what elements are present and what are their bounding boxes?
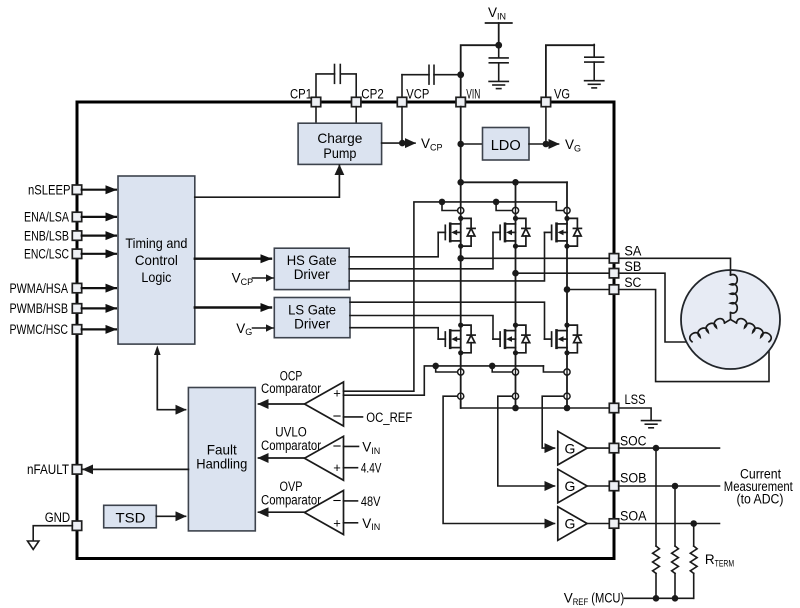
op-amp UVLO comparator [305, 436, 344, 480]
node SOB Rterm tap [672, 483, 679, 490]
resistor R3 (SOA termination) R_TERM [690, 524, 697, 599]
amplifier G (SOC) [558, 431, 587, 465]
wire CSA sense B to G amp [498, 396, 555, 486]
wire phase column A [460, 182, 462, 408]
svg-text:PWMC/HSC: PWMC/HSC [10, 322, 69, 337]
gate ring Q3 [564, 207, 570, 213]
block HS Gate Driver [274, 248, 349, 289]
pin ENB/LSB [72, 231, 81, 240]
pin PWMB/HSB [72, 304, 81, 313]
transistor Q1 high-side A [438, 216, 475, 249]
node HS sense tap B [493, 199, 500, 206]
svg-text:VIN: VIN [362, 516, 380, 532]
svg-text:SA: SA [624, 244, 641, 259]
wire LS sense drop A [436, 366, 458, 372]
source ring Q5 upper [512, 369, 518, 375]
wire ENC to logic [82, 253, 116, 255]
wire CP2 to charge pump [355, 107, 357, 124]
wire ENA to logic [82, 216, 116, 218]
svg-text:Control: Control [135, 252, 178, 268]
wire LS sense drop B [492, 366, 512, 372]
wire CP1 to charge pump [315, 107, 317, 124]
wire PWMB to logic [82, 307, 116, 309]
svg-text:OC_REF: OC_REF [366, 410, 412, 425]
pin SA [609, 254, 618, 263]
svg-text:PWMA/HSA: PWMA/HSA [10, 281, 69, 296]
svg-text:VIN: VIN [466, 86, 480, 101]
sense ring Q5 lower [512, 393, 518, 399]
wire GND to ground [33, 526, 72, 541]
capacitor C_VCP (VCP to VIN) [402, 65, 461, 84]
svg-text:CP1: CP1 [290, 86, 312, 101]
wire OCP output to fault [259, 403, 305, 405]
block LS Gate Driver [274, 298, 350, 338]
svg-text:Comparator: Comparator [261, 438, 321, 453]
wire OVP output to fault [259, 511, 305, 513]
wire HS sense drop A [442, 202, 457, 211]
wire VREF rail [625, 597, 694, 599]
wire fault handling to nFAULT [83, 468, 188, 470]
pin nSLEEP [72, 185, 81, 194]
source ring Q4 upper [458, 369, 464, 375]
pin VCP [397, 97, 406, 106]
svg-text:ENC/LSC: ENC/LSC [24, 247, 69, 262]
svg-text:VCP: VCP [406, 86, 429, 101]
node SOA Rterm tap [690, 520, 697, 527]
svg-text:G: G [565, 516, 576, 532]
wire SB to motor [619, 273, 693, 342]
transistor Q4 low-side A [438, 323, 475, 356]
wire VG pin drop [545, 107, 547, 144]
svg-text:nFAULT: nFAULT [27, 462, 69, 477]
motor winding phase B [688, 314, 730, 342]
svg-text:VG: VG [554, 86, 570, 101]
node LDO input junction [457, 141, 464, 148]
svg-text:nSLEEP: nSLEEP [28, 182, 71, 197]
node SA junction [457, 255, 464, 262]
wire SC phase line [567, 289, 614, 291]
wire OVP VIN input [344, 522, 358, 524]
wire SB phase line [516, 272, 615, 274]
node drain rail col A [457, 179, 464, 186]
wire V_CP arrow out [402, 142, 415, 144]
wire SC to motor [619, 290, 769, 382]
svg-text:ENB/LSB: ENB/LSB [24, 228, 69, 243]
svg-text:VG: VG [236, 321, 252, 337]
wire VIN drain rail [461, 181, 567, 183]
wire UVLO VIN input [344, 445, 359, 447]
transistor Q5 low-side B [493, 323, 530, 356]
wire LS drain sense rail to OCP [344, 366, 544, 395]
wire V_G into LS driver [253, 327, 274, 329]
svg-text:Timing and: Timing and [125, 235, 187, 251]
node VIN supply junction [495, 42, 502, 49]
pin nFAULT [72, 465, 81, 474]
svg-text:(to ADC): (to ADC) [737, 491, 784, 506]
wire VIN supply down [498, 23, 500, 45]
capacitor C_VG with ground [585, 45, 604, 88]
transistor Q3 high-side C [545, 216, 582, 249]
wire G SOB output [587, 485, 614, 487]
op-amp OVP comparator [305, 491, 344, 535]
wire LS sense drop C [543, 366, 563, 372]
svg-text:SOA: SOA [620, 509, 647, 524]
gate ring Q1 [458, 207, 464, 213]
node V_G output junction [543, 141, 550, 148]
wire UVLO 4.4V input [344, 467, 358, 469]
wire LDO input [461, 143, 483, 145]
wire phase column B [515, 182, 517, 408]
svg-text:SOB: SOB [620, 470, 647, 485]
wire G SOA output [587, 523, 614, 525]
wire SA phase line [461, 257, 614, 259]
node SB junction [512, 270, 519, 277]
block Timing and Control Logic U1 [118, 176, 195, 344]
wire LS gate drive 2 to Q5 gate [350, 316, 493, 340]
pin CP1 [311, 97, 320, 106]
wire LDO output [529, 143, 546, 145]
amplifier G (SOA) [558, 507, 587, 541]
block Charge Pump [298, 123, 382, 164]
block Fault Handling [188, 388, 255, 531]
svg-text:Pump: Pump [323, 145, 356, 161]
svg-text:+: + [333, 460, 341, 475]
wire HS gate drive 1 to Q1 gate [349, 232, 438, 256]
svg-text:G: G [565, 440, 576, 456]
svg-text:SB: SB [624, 259, 641, 274]
wire HS gate drive 2 to Q2 gate [349, 232, 493, 268]
IC boundary box [77, 102, 614, 559]
wire LSS rail [461, 396, 614, 408]
node drain rail col B [512, 179, 519, 186]
pin SOB [609, 481, 618, 490]
wire LS gate drive 1 to Q6 gate [350, 302, 545, 339]
svg-text:+: + [333, 515, 341, 530]
wire SOB measurement line [619, 485, 720, 487]
wire SOA measurement line [619, 523, 720, 525]
wire SOC measurement line [619, 447, 720, 449]
wire LS gate drive 3 to Q4 gate [350, 328, 438, 339]
svg-text:PWMB/HSB: PWMB/HSB [10, 301, 69, 316]
svg-text:Driver: Driver [294, 315, 330, 331]
wire TSD to fault handling [156, 515, 185, 517]
pin ENC/LSC [72, 249, 81, 258]
node VCP cap junction [457, 71, 464, 78]
pin CP2 [352, 97, 361, 106]
pin SOA [609, 519, 618, 528]
svg-text:RTERM: RTERM [705, 552, 734, 570]
wire VIN column upper [460, 107, 462, 183]
block LDO [483, 128, 530, 161]
svg-text:CP2: CP2 [361, 86, 384, 101]
resistor R1 (SOC termination) [653, 448, 660, 598]
node LS sense tap B [489, 363, 496, 370]
svg-text:Handling: Handling [196, 456, 247, 472]
wire V_G arrow out [546, 143, 559, 145]
transistor Q2 high-side B [493, 216, 530, 249]
svg-text:GND: GND [45, 510, 71, 525]
node LS sense tap A [432, 363, 439, 370]
svg-text:G: G [565, 478, 576, 494]
svg-text:+: + [333, 386, 341, 401]
svg-text:−: − [333, 408, 342, 425]
pin VIN [456, 97, 465, 106]
wire VCP pin drop [401, 107, 403, 143]
svg-text:LDO: LDO [491, 137, 521, 154]
op-amp OCP comparator [305, 382, 344, 426]
wire logic to LS gate driver [195, 306, 271, 308]
node LSS col C [564, 405, 571, 412]
wire CSA sense A to G amp [443, 396, 554, 523]
ground symbol at LSS [642, 421, 661, 428]
wire UVLO output to fault [259, 457, 305, 459]
pin PWMC/HSC [72, 325, 81, 334]
wire PWMC to logic [82, 328, 116, 330]
svg-text:VG: VG [565, 137, 581, 153]
block TSD [104, 505, 157, 528]
node SC junction [564, 286, 571, 293]
gate ring Q2 [512, 207, 518, 213]
wire HS drain sense rail to OCP [344, 202, 557, 391]
wire LSS to ground [619, 408, 651, 420]
wire ENB to logic [82, 235, 116, 237]
svg-text:VIN: VIN [362, 439, 380, 455]
svg-text:ENA/LSA: ENA/LSA [24, 210, 69, 225]
svg-text:Comparator: Comparator [261, 493, 321, 508]
capacitor C_CP flying cap between CP1 CP2 [316, 65, 356, 103]
svg-text:4.4V: 4.4V [361, 461, 382, 476]
svg-text:48V: 48V [361, 494, 381, 509]
wire VIN supply to VIN pin [461, 45, 499, 102]
svg-text:−: − [333, 492, 342, 509]
motor winding phase A [731, 271, 738, 320]
wire charge pump output V_CP [382, 142, 403, 144]
amplifier G (SOB) [558, 469, 587, 503]
node VREF R2 [672, 595, 679, 602]
sense ring Q4 lower [458, 393, 464, 399]
wire VG pin to cap [546, 45, 594, 102]
node VCP output junction [399, 140, 406, 147]
pin GND [72, 521, 81, 530]
pin SC [609, 285, 618, 294]
svg-text:TSD: TSD [116, 509, 146, 525]
ground symbol at GND [28, 541, 39, 550]
sense ring Q6 lower [564, 393, 570, 399]
wire OVP 48V input [344, 500, 358, 502]
pin VG [541, 97, 550, 106]
node SOC Rterm tap [653, 445, 660, 452]
svg-text:OVP: OVP [280, 479, 303, 494]
motor winding phase C [731, 314, 773, 342]
node HS sense tap A [439, 199, 446, 206]
transistor Q6 low-side C [545, 323, 582, 356]
wire nSLEEP to logic [82, 189, 116, 191]
wire HS sense drop B [496, 202, 512, 211]
supply VIN bar [486, 22, 512, 24]
svg-text:SC: SC [624, 275, 641, 290]
pin LSS [609, 403, 618, 412]
source ring Q6 upper [564, 369, 570, 375]
wire HS gate drive 3 to Q3 gate [349, 232, 544, 281]
wire SA to motor [619, 258, 731, 270]
pin PWMA/HSA [72, 283, 81, 292]
wire phase column C [566, 182, 568, 408]
svg-text:VIN: VIN [488, 5, 506, 21]
capacitor C_VIN bypass with ground [489, 45, 508, 88]
wire V_CP into HS driver [253, 277, 274, 279]
wire OC_REF input [344, 416, 363, 418]
node VREF R1 [653, 595, 660, 602]
wire PWMA to logic [82, 287, 116, 289]
wire G SOC output [587, 447, 614, 449]
resistor R2 (SOB termination) [672, 486, 679, 598]
svg-text:SOC: SOC [620, 434, 647, 449]
svg-text:VREF (MCU): VREF (MCU) [564, 590, 625, 608]
svg-text:Charge: Charge [317, 130, 362, 146]
wire fault handling to logic (both arrows) [157, 349, 185, 410]
wire VCP pin riser [401, 75, 403, 102]
svg-text:VCP: VCP [421, 136, 443, 152]
wire logic to HS gate driver [195, 258, 271, 260]
pin SOC [609, 443, 618, 452]
wire HS sense drop C [556, 202, 563, 211]
svg-text:Driver: Driver [294, 266, 330, 282]
pin ENA/LSA [72, 212, 81, 221]
wire logic to charge pump [195, 165, 340, 197]
svg-text:VCP: VCP [232, 270, 254, 286]
wire CSA sense C to G amp [542, 396, 564, 448]
svg-text:LSS: LSS [625, 392, 646, 407]
svg-text:Comparator: Comparator [261, 381, 321, 396]
svg-text:−: − [333, 438, 342, 455]
svg-text:Logic: Logic [141, 269, 171, 285]
motor M1 body [681, 270, 780, 369]
node LSS col B [512, 405, 519, 412]
pin SB [609, 269, 618, 278]
